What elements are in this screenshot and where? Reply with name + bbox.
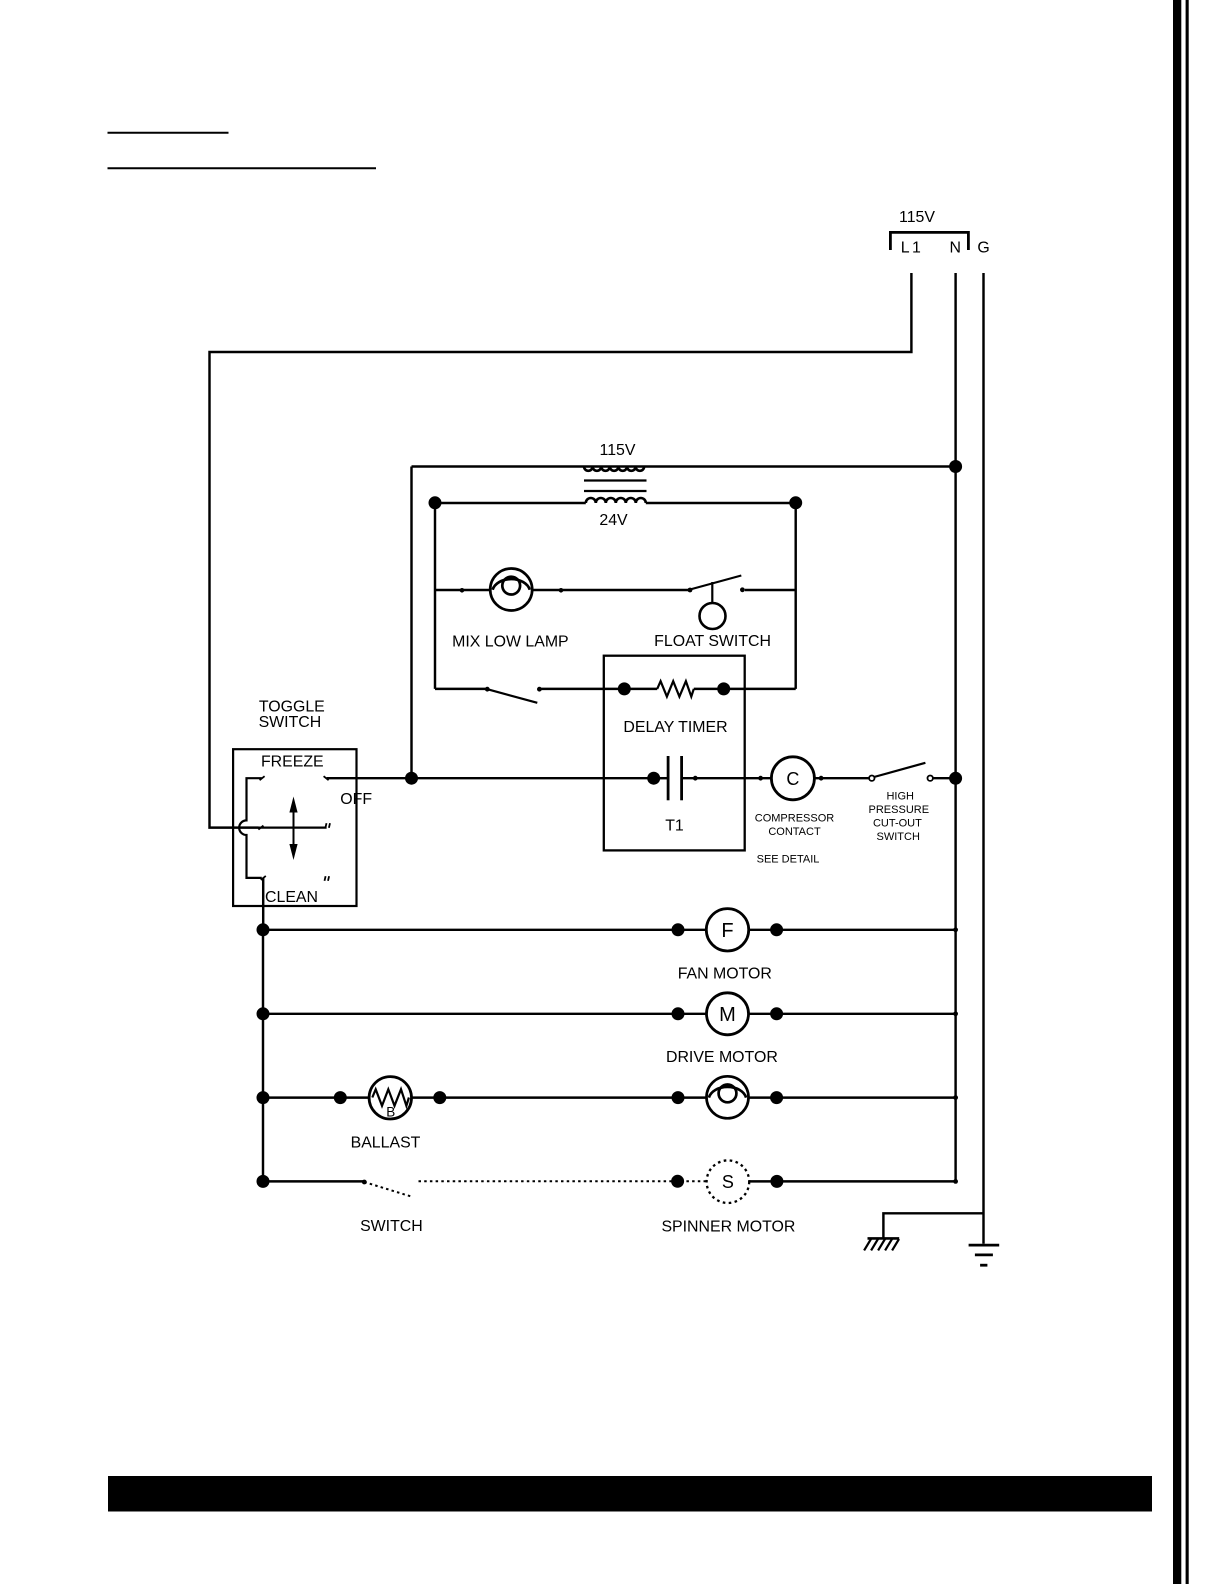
svg-text:BALLAST: BALLAST	[351, 1135, 421, 1152]
junction dot fan row at N	[953, 927, 958, 932]
transformer primary wire 115V	[412, 465, 956, 467]
junction dot T1 left	[647, 772, 660, 785]
junction dot after compressor	[819, 776, 824, 781]
junction dot spinner motor left	[671, 1175, 684, 1188]
dashed wire spinner row	[419, 1180, 707, 1182]
right page border thick bar	[1173, 0, 1181, 1584]
capacitor T1 right plate	[680, 756, 683, 800]
junction dot drive motor right	[770, 1007, 783, 1020]
wire T1 to compressor contact	[682, 777, 772, 779]
junction dot fan motor right	[770, 923, 783, 936]
junction dot lamp left	[460, 588, 465, 593]
left rail toggle to spinner row	[262, 930, 264, 1182]
svg-text:HIGH: HIGH	[886, 790, 914, 802]
svg-text:C: C	[786, 769, 799, 789]
bottom footer bar	[108, 1476, 1152, 1512]
interlock switch contact dot	[537, 687, 542, 692]
mix low lamp	[490, 569, 532, 611]
junction dot lamp row left	[672, 1091, 685, 1104]
compressor contact coil C	[771, 757, 814, 800]
wire spinner row left	[263, 1180, 364, 1182]
drive motor M	[707, 993, 749, 1035]
wire float switch to right rail	[745, 589, 796, 591]
wire 24V right rail down	[794, 503, 796, 689]
junction dot resistor left	[618, 682, 631, 695]
wire 24V secondary left	[435, 502, 586, 504]
resistor delay timer heater	[657, 681, 694, 696]
svg-text:F: F	[721, 920, 733, 942]
junction dot ballast left	[334, 1091, 347, 1104]
svg-text:PRESSURE: PRESSURE	[869, 804, 930, 816]
junction dot fan motor left	[672, 923, 685, 936]
toggle common bar with wire hop	[239, 778, 262, 878]
junction dot ballast right	[433, 1091, 446, 1104]
junction dot before compressor	[758, 776, 763, 781]
junction dot ballast row at N	[953, 1095, 958, 1100]
off row moving contact mark	[325, 823, 330, 828]
svg-text:OFF: OFF	[340, 791, 372, 808]
wire high pressure switch to N	[933, 777, 950, 779]
junction dot lamp right	[559, 588, 564, 593]
junction dot N compressor row	[949, 772, 962, 785]
junction dot drive motor left	[672, 1007, 685, 1020]
svg-text:M: M	[719, 1004, 736, 1026]
svg-text:B: B	[386, 1105, 395, 1120]
float switch contact dot	[740, 587, 745, 592]
svg-text:115V: 115V	[899, 209, 935, 226]
delay timer box	[604, 656, 745, 851]
toggle switch box	[233, 749, 356, 906]
top rule 2	[108, 167, 377, 169]
junction dot fan row left	[257, 923, 270, 936]
junction dot drive row left	[257, 1007, 270, 1020]
float switch float ball	[700, 603, 726, 629]
junction dot spinner row left	[257, 1175, 270, 1188]
junction dot T1 right	[693, 776, 698, 781]
svg-text:L1: L1	[901, 240, 923, 257]
spinner motor S dotted circle	[707, 1160, 750, 1203]
svg-text:FLOAT SWITCH: FLOAT SWITCH	[654, 633, 771, 650]
transformer primary coil	[584, 467, 644, 471]
float switch pivot dot	[688, 588, 693, 593]
junction dot primary at N	[949, 460, 962, 473]
earth ground	[969, 1245, 1000, 1265]
svg-text:CUT-OUT: CUT-OUT	[873, 817, 922, 829]
junction dot spinner row at N	[953, 1179, 958, 1184]
svg-text:G: G	[977, 240, 989, 257]
wire ballast row left	[263, 1096, 369, 1098]
wire L1 feed (down, left, down to toggle switch)	[210, 273, 912, 828]
toggle lever double arrow	[289, 797, 297, 861]
junction dot 24V left	[429, 496, 442, 509]
svg-text:SWITCH: SWITCH	[259, 714, 322, 731]
wire drive row left	[263, 1013, 707, 1015]
svg-text:SWITCH: SWITCH	[360, 1218, 423, 1235]
junction dot ballast row left	[257, 1091, 270, 1104]
chassis ground	[864, 1238, 899, 1250]
wire freeze row to delay timer T1	[327, 777, 654, 779]
wire N vertical	[954, 273, 956, 1181]
wire ground branch	[883, 1213, 983, 1238]
spinner switch pivot dot	[362, 1180, 367, 1185]
transformer secondary coil 24V	[586, 498, 646, 503]
wire G vertical	[982, 273, 984, 1244]
wire primary left down to toggle output junction	[410, 467, 412, 779]
float switch blade	[690, 576, 741, 590]
svg-text:CONTACT: CONTACT	[768, 826, 821, 838]
right page border thin bar	[1186, 0, 1189, 1584]
ballast B	[369, 1077, 411, 1119]
wire lamp to float switch	[532, 589, 690, 591]
junction dot drive row at N	[953, 1011, 958, 1016]
clean row moving contact mark	[325, 876, 330, 881]
ballast resistor zigzag	[372, 1089, 409, 1106]
off row wire	[259, 826, 327, 828]
clean contact tick	[261, 876, 266, 880]
wire spinner row right	[749, 1180, 955, 1182]
svg-text:MIX LOW LAMP: MIX LOW LAMP	[452, 634, 569, 651]
wire 24V left rail down	[434, 503, 436, 689]
wire T1 dot to plate	[654, 777, 668, 779]
junction dot spinner motor right	[770, 1175, 783, 1188]
float switch stem	[711, 582, 713, 603]
wire freeze-interlock row left	[435, 688, 487, 690]
svg-text:S: S	[722, 1172, 734, 1192]
freeze contact tick right	[324, 776, 329, 780]
wire clean contact down to fan row	[262, 878, 264, 930]
junction dot toggle output	[405, 772, 418, 785]
svg-text:SPINNER MOTOR: SPINNER MOTOR	[661, 1219, 795, 1236]
wire compressor to high pressure switch	[814, 777, 869, 779]
svg-text:FAN MOTOR: FAN MOTOR	[678, 965, 772, 982]
junction dot 24V right	[789, 496, 802, 509]
svg-text:COMPRESSOR: COMPRESSOR	[755, 813, 835, 825]
svg-text:24V: 24V	[599, 512, 628, 529]
svg-text:N: N	[950, 240, 961, 257]
transformer core bar lower	[584, 490, 647, 492]
svg-text:TOGGLE: TOGGLE	[259, 698, 325, 715]
capacitor T1 left plate	[667, 756, 670, 800]
freeze contact tick left	[260, 776, 265, 780]
wire fan row right	[749, 929, 956, 931]
fluorescent lamp symbol	[707, 1076, 749, 1118]
wire drive row right	[749, 1013, 956, 1015]
interlock switch blade	[487, 689, 537, 703]
high pressure switch pivot	[869, 776, 874, 781]
svg-text:SEE DETAIL: SEE DETAIL	[757, 853, 820, 865]
spinner switch blade dashed	[364, 1182, 413, 1197]
junction dot resistor right	[717, 682, 730, 695]
top rule 1	[108, 132, 229, 134]
svg-text:CLEAN: CLEAN	[265, 889, 318, 906]
high pressure switch blade	[874, 763, 925, 777]
wire 24V secondary right	[646, 502, 796, 504]
svg-text:T1: T1	[665, 817, 684, 834]
off row tick	[258, 826, 263, 830]
transformer core bar upper	[584, 479, 647, 481]
fan motor F	[706, 909, 748, 951]
high pressure switch contact	[928, 776, 933, 781]
supply terminal bracket	[890, 232, 968, 250]
wire interlock to delay timer	[539, 688, 657, 690]
wire resistor to right rail	[694, 688, 796, 690]
svg-text:SWITCH: SWITCH	[877, 831, 920, 843]
svg-text:DELAY TIMER: DELAY TIMER	[623, 719, 727, 736]
wire fan row left	[263, 929, 706, 931]
interlock switch pivot dot	[485, 687, 490, 692]
svg-text:115V: 115V	[600, 442, 636, 459]
wire lamp row right	[749, 1096, 956, 1098]
svg-text:FREEZE: FREEZE	[261, 754, 324, 771]
junction dot lamp row right	[770, 1091, 783, 1104]
wire lamp row left	[435, 589, 490, 591]
svg-text:DRIVE MOTOR: DRIVE MOTOR	[666, 1049, 778, 1066]
wire ballast to lamp	[412, 1096, 707, 1098]
